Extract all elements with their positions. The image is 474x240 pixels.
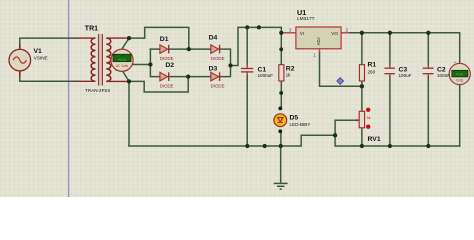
svg-text:D4: D4 [209,35,218,42]
svg-text:260: 260 [368,70,376,75]
svg-text:DIODE: DIODE [160,84,174,89]
svg-text:ADJ: ADJ [316,37,321,45]
svg-text:AC Volts: AC Volts [116,64,129,68]
svg-text:VSINE: VSINE [34,55,48,60]
svg-text:D3: D3 [209,65,218,72]
svg-text:D2: D2 [165,62,174,69]
svg-text:D5: D5 [290,115,299,122]
svg-text:1k: 1k [286,72,292,77]
svg-text:U1: U1 [297,8,306,17]
svg-text:LM317T: LM317T [297,16,315,22]
svg-text:5k: 5k [367,116,371,120]
svg-text:D1: D1 [160,36,169,43]
svg-text:VI: VI [300,31,304,36]
svg-text:VO: VO [331,31,338,36]
svg-text:+0.01: +0.01 [456,73,465,77]
svg-text:100uF: 100uF [399,73,412,78]
svg-text:1000uF: 1000uF [258,73,274,78]
svg-text:100nF: 100nF [437,73,450,78]
svg-text:LED-BIBY: LED-BIBY [290,122,311,127]
svg-text:V1: V1 [34,48,43,55]
svg-text:TRAN-2P2S: TRAN-2P2S [85,88,110,93]
svg-text:R1: R1 [368,62,377,69]
svg-text:TR1: TR1 [85,25,98,32]
svg-text:+0.01: +0.01 [118,58,127,62]
svg-text:DIODE: DIODE [211,84,225,89]
svg-text:Volts: Volts [456,78,464,82]
svg-text:DIODE: DIODE [211,56,225,61]
svg-text:DIODE: DIODE [160,56,174,61]
svg-text:RV1: RV1 [368,136,381,143]
